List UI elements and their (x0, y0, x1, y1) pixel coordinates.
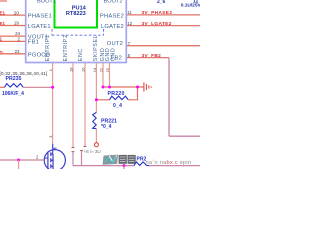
pin end dash (72, 151, 75, 153)
junction dot bottom wire (123, 164, 126, 167)
svg-text:+8 i≈ 3U: +8 i≈ 3U (84, 149, 101, 154)
dashed box inside PU14 (52, 29, 104, 35)
svg-text:PHASE2: PHASE2 (100, 14, 124, 20)
resistor PR236 zigzag on bottom wire (134, 162, 149, 166)
svg-text:ENTRIP1: ENTRIP1 (45, 34, 51, 61)
wire PR235 left stub (0, 86, 5, 88)
wire SKIPSEL to PR220 (96, 99, 109, 101)
svg-text:BOOT2: BOOT2 (104, 0, 123, 4)
wire PGOOD (0, 53, 25, 55)
MOSFET drain blue pin stub (52, 144, 54, 154)
wire LGATE1 (0, 25, 25, 27)
svg-text:ENTRIP2: ENTRIP2 (63, 34, 69, 61)
svg-text:RT8223: RT8223 (66, 11, 86, 17)
svg-text:PR235: PR235 (6, 76, 22, 82)
svg-text:LGATE2: LGATE2 (101, 24, 124, 30)
MOSFET body arrow (51, 159, 54, 161)
top-left red wire sliver (0, 0, 7, 2)
svg-text:*0_4: *0_4 (101, 124, 112, 130)
wire ENTRIP2 vertical (72, 63, 74, 148)
wire PR235 to ENTRIP1 junction (23, 86, 52, 88)
green highlight box inside PU14 (55, 0, 98, 28)
wire VOUT1 (0, 35, 25, 37)
op-amp U1 PU14 RT8223 controller IC body (26, 0, 127, 63)
pin end dash (80, 150, 83, 152)
svg-text:ENC: ENC (78, 48, 84, 61)
svg-text:əpin: əpin (180, 160, 192, 166)
wire stub down from bottom junction (123, 166, 125, 169)
wire SKIPSEL vertical (95, 63, 97, 112)
wire 3V_LGATE2 (127, 25, 200, 27)
svg-text:LGATE1: LGATE1 (28, 24, 51, 30)
junction dot PR220/GND bus (136, 86, 139, 89)
wire GND1 vertical (102, 63, 104, 87)
junction dot GND2 (108, 86, 111, 89)
wire bottom-right net vertical 2 (81, 151, 83, 166)
svg-text:[0,32,35,36,38,40,41]: [0,32,35,36,38,40,41] (0, 71, 48, 76)
wire 3V_FB2 vertical (168, 58, 170, 137)
svg-text:2_6: 2_6 (157, 0, 166, 5)
svg-text:3: 3 (49, 136, 53, 138)
resistor PR235 zigzag (5, 84, 24, 88)
pin end dash ENTRIP2 (72, 147, 75, 149)
wire 3V_FB2 horizontal (127, 57, 169, 59)
svg-text:PHASE1: PHASE1 (28, 14, 52, 20)
resistor PR221 zigzag (vertical) (93, 112, 97, 128)
wire bottom-right net vertical 1 (72, 152, 74, 166)
wire OUT2 (127, 45, 200, 47)
wire stub down from gate junction (18, 160, 20, 169)
svg-text:OUT2: OUT2 (107, 41, 123, 47)
wire PR220 right to up (128, 87, 137, 100)
wire GND2 vertical (109, 63, 111, 87)
svg-text:PR220: PR220 (108, 91, 125, 97)
ground symbol (sideways) (144, 82, 151, 91)
wire GND bus horizontal (103, 86, 144, 88)
wire ENC vertical (84, 63, 86, 147)
wire ENTRIP1 / MOSFET drain vertical (52, 63, 54, 144)
svg-text:SKIPSEL: SKIPSEL (93, 35, 99, 62)
resistor PR220 zigzag (110, 96, 129, 100)
watermark logo (103, 155, 136, 165)
wire PR221 to terminal (95, 129, 97, 143)
svg-text:0.1U/25V: 0.1U/25V (181, 3, 200, 9)
svg-text:FB1: FB1 (28, 40, 39, 46)
transistor Q (N-MOSFET) (44, 148, 65, 171)
svg-text:GND: GND (111, 48, 117, 62)
wire 3V_FB2 bottom horizontal to edge (169, 135, 200, 137)
wire gate horizontal (0, 159, 44, 161)
wire bottom horizontal to right edge (73, 165, 134, 167)
wire FB1 (0, 40, 25, 42)
junction dot gate wire (17, 159, 20, 162)
svg-text:0_4: 0_4 (113, 103, 122, 109)
svg-text:naˇn na: naˇn na (146, 160, 168, 166)
open terminal circle (94, 143, 98, 147)
svg-text:bx.c: bx.c (167, 160, 178, 166)
svg-text:106K/F_4: 106K/F_4 (2, 91, 24, 97)
junction dot ENTRIP1/PR235 (51, 86, 54, 89)
junction dot SKIPSEL/PR220 (95, 98, 98, 101)
wire 3V_PHASE2 (127, 14, 200, 16)
wire PHASE1 (0, 14, 25, 16)
pin end dash ENC (84, 146, 87, 148)
svg-text:BOOT1: BOOT1 (37, 0, 56, 4)
junction dot GND1 (102, 86, 105, 89)
